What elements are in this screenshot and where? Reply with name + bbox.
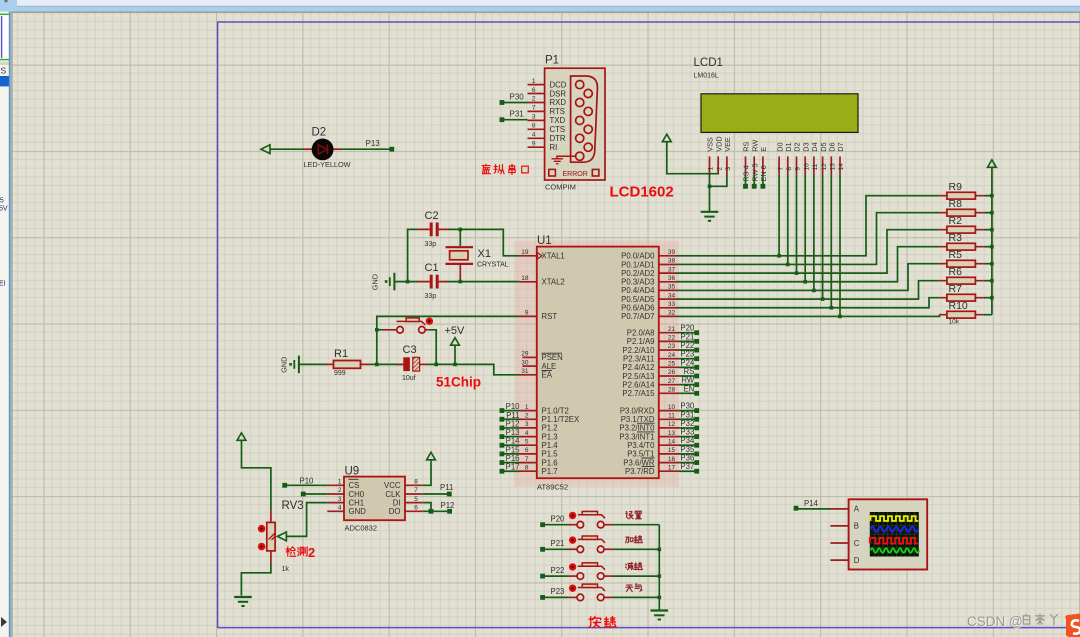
svg-text:CTS: CTS bbox=[550, 125, 566, 134]
svg-text:1: 1 bbox=[525, 404, 529, 411]
svg-text:4: 4 bbox=[532, 132, 536, 139]
pushbutton P23 bbox=[540, 584, 612, 601]
svg-text:26: 26 bbox=[668, 369, 676, 376]
svg-text:GND: GND bbox=[280, 357, 289, 373]
junction D7/P0.7 bbox=[838, 315, 842, 319]
junction ladder bus bbox=[990, 296, 994, 300]
svg-text:6: 6 bbox=[414, 504, 418, 511]
wire P0.1 to R ladder bbox=[676, 213, 939, 265]
wire P31 terminal bbox=[679, 418, 697, 420]
svg-text:P11: P11 bbox=[506, 411, 519, 420]
svg-text:P3.7/RD: P3.7/RD bbox=[625, 467, 655, 476]
svg-text:2: 2 bbox=[532, 96, 536, 103]
wire CH0 terminal bbox=[306, 493, 328, 495]
svg-text:29: 29 bbox=[521, 351, 529, 358]
svg-text:4: 4 bbox=[525, 430, 529, 437]
svg-text:33p: 33p bbox=[425, 293, 437, 300]
svg-text:RST: RST bbox=[542, 312, 558, 321]
svg-text:P2.6/A14: P2.6/A14 bbox=[622, 380, 655, 389]
wire LCD RW terminal bbox=[753, 174, 755, 184]
wire P14 terminal bbox=[502, 444, 520, 446]
wire P0.2 to R ladder bbox=[676, 230, 939, 273]
svg-text:R10: R10 bbox=[949, 300, 968, 312]
svg-text:X1: X1 bbox=[478, 248, 491, 260]
svg-text:P16: P16 bbox=[506, 454, 520, 463]
svg-text:15: 15 bbox=[668, 447, 676, 454]
svg-text:S: S bbox=[1, 66, 7, 76]
svg-text:R5: R5 bbox=[949, 249, 963, 261]
wire button bus bbox=[658, 525, 660, 610]
svg-text:EN: EN bbox=[683, 384, 694, 393]
wire RST riser bbox=[377, 316, 520, 364]
capacitor C2 bbox=[417, 210, 448, 248]
wire +V to RV3 top bbox=[242, 440, 271, 510]
svg-text:21: 21 bbox=[668, 326, 676, 333]
junction D3/P0.3 bbox=[803, 280, 807, 284]
wire DI down bbox=[423, 503, 431, 512]
svg-text:P24: P24 bbox=[680, 358, 695, 367]
svg-text:RTS: RTS bbox=[550, 107, 565, 116]
svg-text:P13: P13 bbox=[506, 428, 520, 437]
svg-text:R3: R3 bbox=[949, 232, 963, 244]
svg-text:D7: D7 bbox=[836, 142, 845, 151]
svg-text:DO: DO bbox=[389, 507, 401, 516]
svg-text:P2.7/A15: P2.7/A15 bbox=[622, 389, 655, 398]
svg-text:22: 22 bbox=[668, 335, 676, 342]
svg-text:51Chip: 51Chip bbox=[436, 375, 481, 390]
wiper arrow bbox=[277, 532, 286, 541]
svg-text:9: 9 bbox=[525, 310, 529, 317]
svg-text:CSDN @: CSDN @ bbox=[967, 614, 1023, 629]
ground terminal GND (R1) bbox=[280, 356, 299, 374]
terminal P10 bbox=[282, 483, 287, 488]
svg-text:E: E bbox=[759, 147, 768, 152]
svg-text:P0.0/AD0: P0.0/AD0 bbox=[621, 252, 655, 261]
wire EN terminal bbox=[679, 392, 697, 394]
ground buttons bbox=[651, 609, 669, 611]
wire P21 terminal bbox=[679, 340, 697, 342]
power arrow RV3 bbox=[237, 433, 246, 441]
svg-text:P0.1/AD1: P0.1/AD1 bbox=[621, 260, 654, 269]
svg-text:P23: P23 bbox=[551, 587, 565, 596]
svg-text:P1.3: P1.3 bbox=[542, 432, 558, 441]
sheet border bbox=[218, 22, 1080, 628]
ground RV3 bbox=[234, 596, 252, 598]
wire C2 left bbox=[408, 229, 417, 281]
svg-text:9: 9 bbox=[532, 140, 536, 147]
svg-text:LM016L: LM016L bbox=[694, 73, 719, 80]
svg-text:P2.2/A10: P2.2/A10 bbox=[622, 346, 655, 355]
svg-text:17: 17 bbox=[668, 464, 676, 471]
svg-text:P22: P22 bbox=[680, 341, 694, 350]
junction D4/P0.4 bbox=[812, 289, 816, 293]
svg-text:VEE: VEE bbox=[723, 137, 732, 152]
svg-text:7: 7 bbox=[525, 456, 529, 463]
svg-text:P33: P33 bbox=[680, 428, 694, 437]
svg-text:8: 8 bbox=[414, 479, 418, 486]
wire P13 terminal bbox=[502, 436, 520, 438]
svg-text:ALE: ALE bbox=[542, 362, 557, 371]
svg-text:RW: RW bbox=[750, 140, 759, 152]
wire R1 to junction bbox=[370, 363, 377, 365]
svg-text:TXD: TXD bbox=[550, 116, 566, 125]
svg-text:RI: RI bbox=[550, 143, 558, 152]
power arrow +5V bbox=[451, 338, 460, 346]
svg-text:P3.5/T1: P3.5/T1 bbox=[627, 450, 654, 459]
svg-text:P0.5/AD5: P0.5/AD5 bbox=[621, 295, 655, 304]
wire button right down bbox=[429, 330, 436, 365]
svg-text:P3.3/INT1: P3.3/INT1 bbox=[619, 432, 654, 441]
wire button 1 right bbox=[612, 548, 659, 550]
svg-text:P3.4/T0: P3.4/T0 bbox=[627, 441, 655, 450]
junction C3 right bbox=[434, 363, 438, 367]
svg-text:P14: P14 bbox=[506, 437, 521, 446]
wire P0.0 to R ladder bbox=[676, 196, 939, 256]
svg-text:6: 6 bbox=[525, 447, 529, 454]
svg-text:P20: P20 bbox=[680, 324, 695, 333]
svg-text:9: 9 bbox=[795, 167, 802, 171]
label button 3 bbox=[626, 584, 642, 592]
potentiometer RV3 bbox=[258, 511, 275, 563]
svg-text:8: 8 bbox=[786, 167, 793, 171]
svg-text:14: 14 bbox=[668, 438, 676, 445]
capacitor C3 (electrolytic) bbox=[377, 357, 436, 371]
svg-text:18: 18 bbox=[521, 275, 529, 282]
svg-text:RS: RS bbox=[742, 142, 751, 152]
svg-text:10uf: 10uf bbox=[402, 375, 416, 382]
wire D2 left bbox=[270, 148, 304, 150]
wire P15 terminal bbox=[502, 453, 520, 455]
svg-text:P0.4/AD4: P0.4/AD4 bbox=[621, 286, 655, 295]
svg-text:P2.0/A8: P2.0/A8 bbox=[627, 329, 655, 338]
svg-text:P17: P17 bbox=[506, 463, 520, 472]
svg-text:39: 39 bbox=[668, 249, 676, 256]
svg-text:25: 25 bbox=[668, 361, 676, 368]
svg-text:P1.4: P1.4 bbox=[542, 441, 559, 450]
svg-text:2: 2 bbox=[525, 412, 529, 419]
svg-text:12: 12 bbox=[668, 421, 676, 428]
svg-text:P1.0/T2: P1.0/T2 bbox=[542, 406, 569, 415]
svg-text:P2.4/A12: P2.4/A12 bbox=[622, 363, 654, 372]
svg-text:CS: CS bbox=[349, 481, 360, 490]
svg-text:3: 3 bbox=[338, 496, 342, 503]
svg-text:6: 6 bbox=[532, 87, 536, 94]
svg-text:P1.2: P1.2 bbox=[542, 424, 558, 433]
wire RS terminal bbox=[679, 375, 697, 377]
svg-text:P32: P32 bbox=[680, 419, 694, 428]
svg-text:P1.5: P1.5 bbox=[542, 450, 559, 459]
svg-text:P10: P10 bbox=[300, 476, 315, 485]
wire D2 to P13 bbox=[341, 148, 392, 150]
svg-text:8: 8 bbox=[525, 464, 529, 471]
svg-text:P15: P15 bbox=[506, 445, 521, 454]
svg-text:16: 16 bbox=[668, 456, 676, 463]
svg-text:RV3: RV3 bbox=[282, 500, 304, 512]
wire P0.7 to R ladder bbox=[676, 315, 940, 317]
junction C1 left bbox=[406, 280, 410, 284]
svg-text:5V: 5V bbox=[0, 206, 8, 213]
svg-text:33p: 33p bbox=[425, 241, 437, 248]
svg-text:14: 14 bbox=[838, 163, 845, 171]
svg-text:3: 3 bbox=[725, 167, 732, 171]
svg-text:2: 2 bbox=[716, 167, 723, 171]
svg-text:A: A bbox=[854, 505, 860, 514]
svg-text:P0.6/AD6: P0.6/AD6 bbox=[621, 304, 654, 313]
wire +5V to VDD bbox=[667, 143, 718, 174]
resistor R5 bbox=[939, 260, 992, 267]
svg-text:R9: R9 bbox=[949, 181, 963, 193]
terminal P13 bbox=[389, 147, 394, 152]
oscilloscope bbox=[830, 499, 927, 569]
svg-text:R2: R2 bbox=[949, 215, 963, 227]
svg-text:P12: P12 bbox=[441, 501, 455, 510]
svg-text:XTAL1: XTAL1 bbox=[542, 252, 565, 261]
wire P31 to TXD bbox=[504, 119, 528, 121]
svg-text:LCD1602: LCD1602 bbox=[610, 184, 674, 201]
resistor R2 bbox=[939, 226, 992, 233]
wire DO to P12 bbox=[423, 510, 448, 512]
wire P24 terminal bbox=[679, 366, 697, 368]
label 虚拟串口 (virtual serial port) bbox=[482, 164, 528, 174]
svg-text:AT89C52: AT89C52 bbox=[537, 483, 568, 492]
wire P30 terminal bbox=[679, 410, 697, 412]
svg-text:1: 1 bbox=[708, 167, 715, 171]
terminal P11 bbox=[447, 492, 452, 497]
wire P20 terminal bbox=[679, 332, 697, 334]
object selector sidebar bbox=[0, 12, 11, 637]
svg-text:EA: EA bbox=[542, 371, 553, 380]
svg-text:P22: P22 bbox=[551, 566, 565, 575]
wire P32 terminal bbox=[679, 427, 697, 429]
svg-text:37: 37 bbox=[668, 266, 676, 273]
svg-text:19: 19 bbox=[521, 249, 529, 256]
wire P12 terminal bbox=[502, 427, 520, 429]
svg-text:P3.6/WR: P3.6/WR bbox=[623, 458, 655, 467]
svg-text:P2.3/A11: P2.3/A11 bbox=[623, 354, 655, 363]
svg-text:GND: GND bbox=[349, 507, 367, 516]
svg-text:C: C bbox=[854, 539, 860, 548]
svg-text:P14: P14 bbox=[804, 499, 819, 508]
resistor R6 bbox=[939, 277, 992, 284]
selection highlight U1 bbox=[514, 241, 679, 487]
wire P11 terminal bbox=[502, 418, 520, 420]
wire GND to C1 bbox=[394, 281, 417, 283]
svg-text:13: 13 bbox=[668, 430, 676, 437]
svg-text:VDD: VDD bbox=[714, 136, 723, 151]
svg-text:P2.1/A9: P2.1/A9 bbox=[627, 337, 655, 346]
svg-text:3: 3 bbox=[532, 114, 536, 121]
svg-text:C1: C1 bbox=[425, 262, 439, 274]
svg-text:P35: P35 bbox=[680, 445, 695, 454]
wire CH1 to RV3 wiper bbox=[286, 503, 327, 537]
label 检测2 bbox=[286, 547, 307, 556]
svg-text:30: 30 bbox=[521, 359, 529, 366]
junction C2/X1 bbox=[459, 228, 463, 232]
junction ladder bus bbox=[990, 228, 994, 232]
svg-text:D6: D6 bbox=[828, 142, 837, 151]
wire LCD RS terminal bbox=[745, 174, 747, 184]
ADC U9 ADC0832 bbox=[327, 477, 423, 521]
wire to ground bbox=[709, 186, 711, 211]
svg-text:XTAL2: XTAL2 bbox=[542, 278, 565, 287]
svg-text:D0: D0 bbox=[775, 142, 784, 151]
svg-text:B: B bbox=[854, 522, 859, 531]
svg-text:P3.1/TXD: P3.1/TXD bbox=[621, 415, 655, 424]
svg-text:8: 8 bbox=[532, 123, 536, 130]
wire RW terminal bbox=[679, 384, 697, 386]
svg-text:23: 23 bbox=[668, 343, 676, 350]
svg-text:7: 7 bbox=[414, 487, 418, 494]
svg-text:24: 24 bbox=[668, 352, 676, 359]
svg-text:VCC: VCC bbox=[384, 481, 401, 490]
wire CLK to P11 bbox=[423, 493, 447, 495]
svg-text:D: D bbox=[854, 556, 860, 565]
wire P0.5 to R ladder bbox=[676, 281, 939, 299]
junction button tap bbox=[375, 328, 379, 332]
resistor R10 bbox=[939, 311, 992, 318]
svg-text:CLK: CLK bbox=[385, 490, 401, 499]
LCD LCD1 LM016L bbox=[694, 57, 859, 174]
svg-text:P36: P36 bbox=[680, 454, 694, 463]
toolbar strip bbox=[0, 0, 1080, 12]
junction button bus bbox=[658, 596, 662, 600]
label button 2 bbox=[625, 562, 642, 569]
svg-text:D2: D2 bbox=[312, 127, 327, 139]
junction ladder bus bbox=[990, 279, 994, 283]
svg-text:27: 27 bbox=[668, 378, 676, 385]
svg-text:DTR: DTR bbox=[550, 134, 566, 143]
wire P23 terminal bbox=[679, 358, 697, 360]
svg-text:C2: C2 bbox=[425, 210, 439, 222]
svg-text:38: 38 bbox=[668, 258, 676, 265]
svg-text:LED-YELLOW: LED-YELLOW bbox=[304, 160, 351, 169]
wire C2 right to XTAL1 bbox=[448, 229, 520, 255]
svg-text:P34: P34 bbox=[680, 436, 695, 445]
terminal arrow (D2 cathode) bbox=[261, 145, 270, 154]
wire X1 top bbox=[459, 229, 461, 246]
pushbutton (reset) bbox=[383, 318, 433, 334]
svg-text:P10: P10 bbox=[506, 402, 521, 411]
junction D5/P0.5 bbox=[821, 297, 825, 301]
ground LCD bbox=[701, 211, 719, 213]
svg-text:RXD: RXD bbox=[550, 98, 567, 107]
wire to EA bbox=[436, 364, 519, 374]
junction VSS/VEE bbox=[708, 185, 712, 189]
wire P16 terminal bbox=[502, 462, 520, 464]
svg-text:P3.2/INT0: P3.2/INT0 bbox=[619, 424, 655, 433]
svg-text:ADC0832: ADC0832 bbox=[345, 524, 378, 533]
junction ladder bus bbox=[990, 194, 994, 198]
wire P33 terminal bbox=[679, 436, 697, 438]
wire to button left bbox=[377, 329, 383, 331]
svg-text:7: 7 bbox=[777, 167, 784, 171]
wire P36 terminal bbox=[679, 462, 697, 464]
svg-text:U9: U9 bbox=[345, 465, 360, 477]
wire P10 to CS bbox=[285, 484, 328, 486]
terminal P14 bbox=[794, 506, 799, 511]
wire P14 to scope A bbox=[796, 508, 830, 510]
connector P1 COMPIM bbox=[528, 68, 606, 180]
resistor R1 bbox=[326, 361, 370, 369]
svg-text:EI: EI bbox=[0, 281, 6, 288]
svg-text:R8: R8 bbox=[949, 198, 963, 210]
svg-text:34: 34 bbox=[668, 292, 676, 299]
svg-text:D3: D3 bbox=[801, 142, 810, 151]
junction D2/P0.2 bbox=[795, 271, 799, 275]
svg-text:P1.1/T2EX: P1.1/T2EX bbox=[542, 415, 581, 424]
svg-text:P30: P30 bbox=[510, 92, 525, 101]
svg-text:P0.7/AD7: P0.7/AD7 bbox=[621, 312, 654, 321]
CSDN logo bbox=[1065, 614, 1080, 637]
wire P34 terminal bbox=[679, 444, 697, 446]
label button 1 bbox=[626, 536, 643, 543]
svg-text:7: 7 bbox=[532, 105, 536, 112]
CSDN watermark bbox=[967, 614, 1058, 630]
wire LCD D2 column bbox=[796, 174, 798, 273]
wire LCD D5 column bbox=[822, 174, 824, 299]
svg-text:D2: D2 bbox=[793, 142, 802, 151]
svg-text:36: 36 bbox=[668, 275, 676, 282]
wire P37 terminal bbox=[679, 470, 697, 472]
svg-text:DI: DI bbox=[393, 498, 401, 507]
svg-text:P1: P1 bbox=[545, 55, 559, 67]
junction ladder bus bbox=[990, 245, 994, 249]
svg-text:U1: U1 bbox=[537, 235, 552, 247]
svg-text:-5: -5 bbox=[0, 198, 4, 205]
svg-text:1k: 1k bbox=[282, 566, 290, 573]
wire VSS down bbox=[709, 174, 711, 186]
wire P35 terminal bbox=[679, 453, 697, 455]
svg-text:RS: RS bbox=[683, 367, 694, 376]
svg-text:DSR: DSR bbox=[550, 89, 567, 98]
svg-text:RW: RW bbox=[681, 376, 694, 385]
svg-text:LCD1: LCD1 bbox=[694, 57, 723, 69]
svg-text:CH1: CH1 bbox=[349, 498, 365, 507]
wire LCD D1 column bbox=[787, 174, 789, 264]
svg-text:2: 2 bbox=[308, 545, 315, 560]
svg-text:2: 2 bbox=[338, 487, 342, 494]
svg-text:12: 12 bbox=[821, 163, 828, 171]
wire RV3 to ground bbox=[241, 563, 271, 596]
junction X1 bottom bbox=[459, 280, 463, 284]
junction +5V bbox=[453, 363, 457, 367]
svg-text:31: 31 bbox=[521, 368, 529, 375]
svg-text:R7: R7 bbox=[949, 283, 963, 295]
junction ladder bus bbox=[990, 262, 994, 266]
svg-text:35: 35 bbox=[668, 284, 676, 291]
junction ladder bus bbox=[990, 211, 994, 215]
resistor R8 bbox=[939, 209, 992, 216]
svg-text:33: 33 bbox=[668, 301, 676, 308]
svg-text:P31: P31 bbox=[680, 410, 694, 419]
capacitor C1 bbox=[417, 262, 448, 300]
resistor R3 bbox=[939, 243, 992, 250]
wire LCD D7 column bbox=[839, 174, 841, 316]
wire P10 terminal bbox=[502, 410, 520, 412]
svg-text:D4: D4 bbox=[810, 142, 819, 151]
svg-text:P2.5/A13: P2.5/A13 bbox=[622, 372, 654, 381]
svg-text:10: 10 bbox=[803, 163, 810, 171]
power arrow ladder bbox=[988, 160, 997, 168]
power arrow LCD VDD bbox=[662, 134, 671, 142]
svg-text:1: 1 bbox=[532, 78, 536, 85]
svg-text:13: 13 bbox=[830, 163, 837, 171]
svg-text:P3.0/RXD: P3.0/RXD bbox=[620, 406, 655, 415]
junction R1/C3 bbox=[375, 363, 379, 367]
junction button bus bbox=[658, 574, 662, 578]
wire VEE down bbox=[710, 174, 727, 186]
svg-text:P13: P13 bbox=[366, 139, 381, 148]
